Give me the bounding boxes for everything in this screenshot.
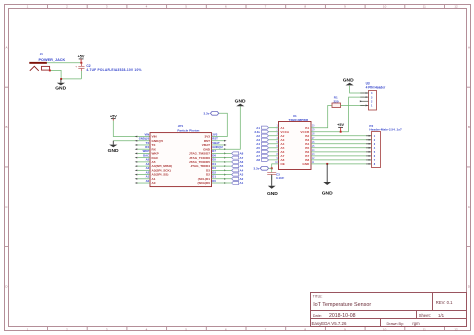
svg-text:(SDA)D0: (SDA)D0 — [197, 181, 210, 185]
U1 left stubs — [269, 128, 279, 160]
+5V flag (jack) — [78, 55, 85, 63]
svg-text:1/1: 1/1 — [438, 313, 445, 318]
level shifter U1 — [279, 114, 312, 169]
wire jack to +5V — [47, 62, 82, 64]
svg-text:OE: OE — [280, 162, 284, 166]
svg-text:B: B — [5, 125, 7, 129]
wire VCCB +5V rail — [311, 131, 349, 133]
svg-text:12: 12 — [454, 327, 458, 331]
JP1 right pin names — [189, 135, 211, 186]
resistor R1 — [332, 95, 341, 107]
svg-text:Date:: Date: — [313, 314, 322, 318]
TITLEBLOCK — [311, 293, 467, 327]
svg-text:3.3v: 3.3v — [254, 167, 260, 171]
svg-text:A: A — [468, 46, 470, 50]
wires B2-B8 to P2 — [311, 136, 372, 160]
wire U3 pin4 to GND — [350, 86, 365, 93]
svg-text:B: B — [468, 125, 470, 129]
U3 pin stubs — [360, 93, 368, 105]
capacitor C2 — [75, 63, 141, 72]
svg-text:A0: A0 — [152, 181, 156, 185]
P2 pin arrows — [369, 135, 372, 165]
svg-text:D0: D0 — [212, 179, 216, 183]
svg-text:EasyEDA V5.7.26: EasyEDA V5.7.26 — [312, 321, 347, 326]
JP1 right pin arrows — [224, 140, 227, 184]
svg-text:Header-Male-2.54_1x7: Header-Male-2.54_1x7 — [369, 127, 402, 131]
svg-text:GND: GND — [235, 98, 246, 104]
ground (photon right, up) — [235, 98, 246, 106]
svg-text:12: 12 — [454, 5, 458, 9]
svg-text:4.7UF POLAR-EIA3528-10V 10%: 4.7UF POLAR-EIA3528-10V 10% — [86, 68, 141, 72]
ground (C3) — [267, 175, 278, 197]
wire U1 GND to P2 pin8 — [311, 163, 372, 165]
U1 left pin names — [280, 126, 290, 166]
wire jack switch to gnd rail — [50, 70, 82, 79]
wire +5V rail to U3 pin3 — [349, 97, 365, 132]
net flags A8-A1 (photon side) — [232, 152, 239, 185]
svg-text:+: + — [75, 64, 77, 68]
svg-text:GND: GND — [267, 191, 278, 197]
particle photon JP1 — [150, 124, 212, 187]
svg-text:10: 10 — [383, 5, 387, 9]
+5V flag (photon) — [110, 114, 117, 120]
net flag 3.3v (OE) — [254, 166, 269, 170]
net flags A1,3.3v,A2-A8 (U1 side) — [262, 126, 269, 161]
svg-text:A: A — [5, 46, 7, 50]
U1 right pin numbers — [312, 126, 315, 164]
svg-text:rgm: rgm — [412, 321, 420, 326]
svg-text:10: 10 — [383, 327, 387, 331]
wire GND@2 up — [212, 106, 241, 149]
wire C3 to gnd — [271, 175, 273, 180]
svg-text:J1: J1 — [40, 52, 44, 56]
svg-text:GND: GND — [302, 162, 310, 166]
wire R1 to U3 pin1 — [341, 104, 365, 106]
svg-text:GND: GND — [322, 190, 333, 196]
svg-text:2018-10-08: 2018-10-08 — [329, 313, 356, 319]
junction — [326, 163, 328, 165]
net flag labels A8-A1 — [240, 152, 244, 186]
4 pin header U3 — [366, 81, 386, 110]
junction — [49, 70, 51, 72]
wire OE to junction — [272, 164, 279, 168]
svg-text:+5V: +5V — [110, 114, 117, 118]
svg-text:GND: GND — [55, 86, 66, 92]
junction — [271, 167, 273, 169]
wire GND to GND@5 — [113, 140, 150, 142]
svg-text:POWER_JACK: POWER_JACK — [39, 58, 66, 62]
svg-text:A1: A1 — [240, 181, 244, 185]
junction — [60, 78, 62, 80]
ground (photon) — [108, 141, 119, 154]
svg-text:GND: GND — [108, 148, 119, 154]
net flag 3.3v (photon) — [204, 111, 219, 115]
svg-text:+5V: +5V — [78, 55, 85, 59]
svg-text:Drawn By:: Drawn By: — [387, 322, 405, 326]
wire +5V to VIN — [113, 121, 150, 137]
svg-text:REV: 0.1: REV: 0.1 — [436, 300, 453, 305]
JP1 left pin names — [152, 135, 173, 186]
svg-text:TITLE:: TITLE: — [313, 295, 323, 299]
power jack J1 — [29, 52, 65, 71]
wire B1 to R1 — [311, 105, 332, 127]
U1 right pin names — [300, 126, 310, 166]
svg-text:GND: GND — [343, 77, 354, 83]
junction — [80, 62, 82, 64]
svg-text:3.3v: 3.3v — [204, 112, 210, 116]
wire flag to junction — [269, 167, 272, 169]
JP1 left pin numbers — [139, 132, 150, 183]
svg-text:IoT Temperature Sensor: IoT Temperature Sensor — [313, 302, 371, 308]
wire C2 to gnd rail — [80, 71, 82, 79]
svg-text:Particle Photon: Particle Photon — [177, 128, 199, 132]
svg-text:4 PIN Header: 4 PIN Header — [366, 85, 386, 89]
svg-text:0.1UF: 0.1UF — [276, 176, 284, 180]
ground (jack) — [55, 79, 66, 92]
svg-text:A0: A0 — [146, 179, 150, 183]
P2 pin stubs — [366, 136, 372, 164]
title block text — [312, 295, 454, 326]
svg-text:Sheet:: Sheet: — [419, 313, 431, 318]
wires D7-D0 to flags — [212, 153, 232, 183]
JP1 right pin stubs — [212, 141, 225, 145]
JP1 left pin stubs — [137, 145, 150, 183]
header P2 — [369, 124, 402, 168]
svg-text:A8: A8 — [256, 158, 260, 162]
U1 left pin numbers — [275, 126, 278, 164]
net flag labels (U1 side) — [254, 126, 260, 162]
ground (U1 right) — [322, 164, 333, 197]
U3 pin arrows — [360, 92, 368, 106]
+5V flag (U1) — [337, 123, 344, 132]
wire 3V3 to 3.3v flag — [212, 113, 228, 136]
junction — [340, 131, 342, 133]
JP1 left pin arrows — [135, 136, 138, 184]
JP1 right pin numbers — [212, 132, 223, 183]
ground (U3, up) — [343, 77, 354, 85]
svg-text:+5V: +5V — [337, 123, 344, 127]
svg-text:11: 11 — [423, 5, 426, 9]
svg-text:11: 11 — [423, 327, 426, 331]
capacitor C3 — [267, 168, 284, 180]
